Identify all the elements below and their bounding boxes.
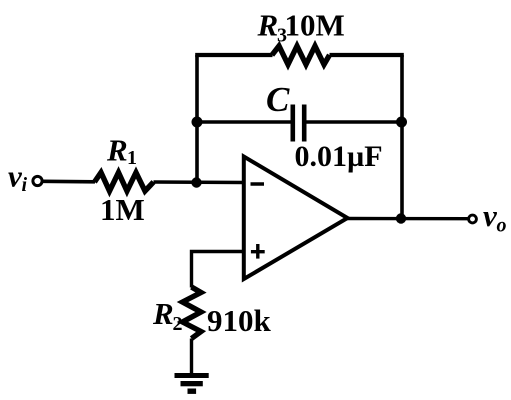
wire cap branch right bbox=[307, 120, 403, 123]
resistor R3 bbox=[272, 46, 330, 65]
resistor R1 bbox=[95, 173, 154, 192]
svg-text:o: o bbox=[497, 215, 507, 237]
svg-text:C: C bbox=[266, 80, 290, 119]
input terminal circle (vi) bbox=[33, 176, 42, 185]
minus sign inverting input bbox=[251, 182, 265, 186]
svg-text:10M: 10M bbox=[285, 8, 345, 43]
wire output bbox=[347, 217, 468, 221]
svg-text:R: R bbox=[257, 8, 279, 43]
resistor R2 bbox=[183, 287, 202, 339]
node D: output junction dot bbox=[396, 213, 406, 223]
svg-text:R: R bbox=[152, 296, 174, 331]
op-amp U1 bbox=[244, 157, 348, 280]
svg-text:i: i bbox=[22, 174, 28, 196]
node C: junction dot right cap branch bbox=[396, 117, 407, 128]
label vo bbox=[483, 198, 507, 237]
svg-text:1M: 1M bbox=[100, 192, 145, 227]
wire top left to R3 bbox=[195, 53, 272, 57]
wire R1 to inverting input bbox=[154, 180, 244, 184]
svg-text:910k: 910k bbox=[207, 303, 272, 338]
wire R2 to ground bbox=[190, 339, 193, 375]
node B: junction dot left cap branch bbox=[192, 117, 203, 128]
label R2 bbox=[152, 296, 183, 335]
wire input to R1 bbox=[42, 179, 95, 183]
ground bbox=[175, 373, 209, 394]
wire left vertical branch bbox=[195, 55, 199, 183]
wire R3 to right vertical bbox=[330, 53, 404, 57]
svg-text:0.01µF: 0.01µF bbox=[295, 140, 383, 173]
wire right vertical branch bbox=[400, 55, 404, 219]
label R1 bbox=[106, 133, 137, 170]
node A: input junction dot bbox=[191, 177, 201, 187]
label vi bbox=[8, 159, 28, 197]
plus sign non-inverting input bbox=[251, 244, 265, 259]
svg-text:2: 2 bbox=[173, 313, 183, 335]
wire non-inverting input bbox=[192, 252, 244, 288]
capacitor C bbox=[293, 105, 304, 142]
svg-text:1: 1 bbox=[127, 147, 137, 169]
label R3 bbox=[257, 8, 288, 47]
wire cap branch left bbox=[197, 120, 291, 123]
output terminal circle (vo) bbox=[469, 215, 477, 223]
svg-text:R: R bbox=[106, 133, 128, 168]
